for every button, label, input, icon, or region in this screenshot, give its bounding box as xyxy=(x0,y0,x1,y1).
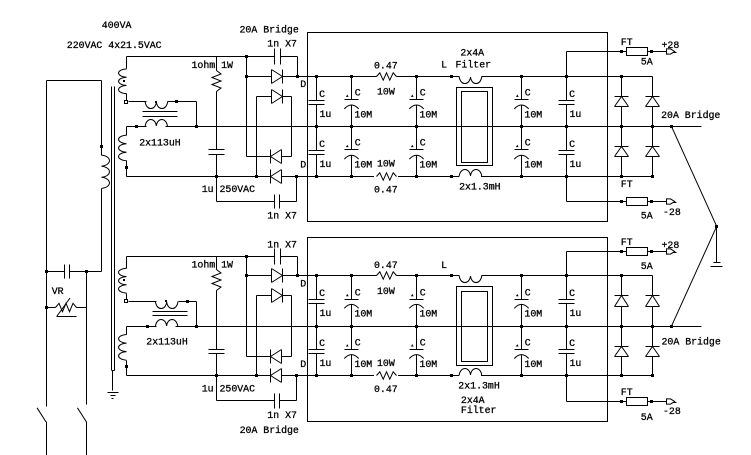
svg-text:C: C xyxy=(355,88,361,99)
svg-text:1u 250VAC: 1u 250VAC xyxy=(202,383,255,394)
svg-text:C: C xyxy=(525,338,531,349)
svg-text:10M: 10M xyxy=(419,359,437,370)
svg-text:FT: FT xyxy=(621,387,633,398)
svg-text:20A Bridge: 20A Bridge xyxy=(661,110,720,121)
svg-text:C: C xyxy=(569,288,575,299)
svg-text:C: C xyxy=(420,338,426,349)
svg-text:C: C xyxy=(319,89,325,100)
svg-text:10M: 10M xyxy=(419,160,437,171)
svg-text:VR: VR xyxy=(52,286,64,297)
svg-text:10M: 10M xyxy=(354,109,372,120)
svg-text:C: C xyxy=(355,138,361,149)
svg-text:20A Bridge: 20A Bridge xyxy=(662,336,721,347)
svg-text:5A: 5A xyxy=(641,210,653,221)
svg-text:Filter: Filter xyxy=(461,405,497,416)
svg-text:C: C xyxy=(525,138,531,149)
svg-text:C: C xyxy=(319,338,325,349)
svg-text:1n X7: 1n X7 xyxy=(267,39,297,50)
svg-text:1u: 1u xyxy=(320,308,332,319)
svg-text:10M: 10M xyxy=(419,309,437,320)
svg-text:+28: +28 xyxy=(662,40,680,51)
svg-text:C: C xyxy=(569,89,575,100)
svg-text:0.47: 0.47 xyxy=(374,384,398,395)
svg-text:C: C xyxy=(319,139,325,150)
svg-text:1u 250VAC: 1u 250VAC xyxy=(202,184,255,195)
svg-text:D: D xyxy=(300,79,306,90)
svg-text:0.47: 0.47 xyxy=(374,61,398,72)
svg-text:1n X7: 1n X7 xyxy=(267,410,297,421)
svg-text:10W: 10W xyxy=(377,286,395,297)
svg-text:D: D xyxy=(300,160,306,171)
svg-text:5A: 5A xyxy=(641,261,653,272)
svg-text:2x113uH: 2x113uH xyxy=(139,137,181,148)
svg-text:0.47: 0.47 xyxy=(374,260,398,271)
svg-text:10W: 10W xyxy=(377,158,395,169)
svg-text:20A Bridge: 20A Bridge xyxy=(240,425,299,436)
svg-text:0.47: 0.47 xyxy=(374,185,398,196)
svg-text:FT: FT xyxy=(621,37,633,48)
svg-text:10M: 10M xyxy=(524,359,542,370)
svg-text:-28: -28 xyxy=(663,406,681,417)
svg-text:10M: 10M xyxy=(524,109,542,120)
svg-text:220VAC 4x21.5VAC: 220VAC 4x21.5VAC xyxy=(67,40,162,51)
svg-text:10W: 10W xyxy=(377,358,395,369)
svg-text:C: C xyxy=(319,288,325,299)
svg-text:L: L xyxy=(441,60,447,71)
svg-text:1u: 1u xyxy=(570,358,582,369)
svg-text:1u: 1u xyxy=(570,159,582,170)
svg-text:1u: 1u xyxy=(320,109,332,120)
svg-text:2x1.3mH: 2x1.3mH xyxy=(459,181,501,192)
svg-text:C: C xyxy=(420,138,426,149)
svg-text:2x4A: 2x4A xyxy=(460,48,484,59)
svg-text:20A Bridge: 20A Bridge xyxy=(240,25,299,36)
svg-text:C: C xyxy=(569,139,575,150)
svg-text:+28: +28 xyxy=(662,240,680,251)
svg-text:1n X7: 1n X7 xyxy=(267,239,297,250)
svg-text:2x1.3mH: 2x1.3mH xyxy=(458,381,500,392)
svg-text:D: D xyxy=(300,278,306,289)
svg-text:10W: 10W xyxy=(377,87,395,98)
svg-text:C: C xyxy=(420,288,426,299)
svg-text:10M: 10M xyxy=(354,160,372,171)
svg-text:1n X7: 1n X7 xyxy=(267,211,297,222)
svg-text:10M: 10M xyxy=(354,309,372,320)
svg-text:1ohm 1W: 1ohm 1W xyxy=(192,260,234,271)
svg-text:C: C xyxy=(525,88,531,99)
svg-text:1u: 1u xyxy=(320,358,332,369)
svg-text:C: C xyxy=(420,88,426,99)
svg-text:5A: 5A xyxy=(641,57,653,68)
svg-text:1ohm 1W: 1ohm 1W xyxy=(192,60,234,71)
svg-text:Filter: Filter xyxy=(456,60,492,71)
svg-text:1u: 1u xyxy=(570,308,582,319)
svg-text:5A: 5A xyxy=(641,412,653,423)
svg-text:400VA: 400VA xyxy=(102,20,132,31)
svg-text:10M: 10M xyxy=(524,160,542,171)
svg-text:10M: 10M xyxy=(354,359,372,370)
svg-text:C: C xyxy=(569,338,575,349)
svg-text:10M: 10M xyxy=(524,309,542,320)
svg-text:10M: 10M xyxy=(419,109,437,120)
svg-text:L: L xyxy=(441,260,447,271)
svg-text:D: D xyxy=(300,359,306,370)
svg-text:2x113uH: 2x113uH xyxy=(146,337,188,348)
svg-text:1u: 1u xyxy=(320,159,332,170)
svg-text:C: C xyxy=(355,338,361,349)
svg-text:C: C xyxy=(355,288,361,299)
svg-text:1u: 1u xyxy=(570,109,582,120)
svg-text:C: C xyxy=(525,288,531,299)
svg-text:FT: FT xyxy=(621,179,633,190)
svg-text:-28: -28 xyxy=(663,207,681,218)
svg-text:FT: FT xyxy=(621,237,633,248)
